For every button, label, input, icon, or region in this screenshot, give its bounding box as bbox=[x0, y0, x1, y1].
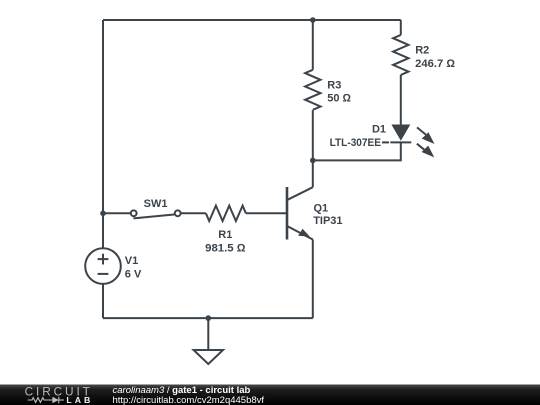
ground bbox=[194, 350, 223, 364]
wire switch SW1 right terminal to resistor R1 bbox=[181, 212, 206, 214]
node C junction dot (collector / LED cathode) bbox=[310, 158, 316, 164]
svg-text:LTL-307EE: LTL-307EE bbox=[330, 137, 381, 149]
wire node A to switch SW1 left terminal bbox=[103, 212, 131, 214]
svg-text:6 V: 6 V bbox=[125, 269, 142, 281]
wire transistor Q1 emitter down to bottom wire bbox=[312, 240, 314, 319]
resistor R2 bbox=[393, 35, 408, 75]
resistor R1 bbox=[206, 206, 246, 221]
wire V1 minus terminal down to bottom wire bbox=[102, 284, 104, 318]
wire resistor R1 to transistor Q1 base bbox=[246, 212, 286, 214]
svg-text:Q1: Q1 bbox=[314, 202, 329, 214]
svg-text:TIP31: TIP31 bbox=[313, 215, 342, 227]
svg-text:981.5 Ω: 981.5 Ω bbox=[205, 243, 246, 255]
node D junction dot (bottom wire / ground) bbox=[206, 315, 212, 321]
footer bar bbox=[0, 385, 540, 405]
svg-text:SW1: SW1 bbox=[144, 198, 168, 210]
switch SW1 bbox=[131, 210, 181, 218]
wire transistor Q1 collector up to node B bbox=[312, 110, 314, 187]
svg-text:50 Ω: 50 Ω bbox=[327, 93, 351, 105]
wire R2 top lead bbox=[400, 20, 402, 35]
LED D1 bbox=[382, 125, 435, 158]
svg-text:R1: R1 bbox=[218, 229, 232, 241]
node A junction dot (left wire / switch) bbox=[100, 211, 106, 217]
svg-text:LAB: LAB bbox=[66, 395, 93, 405]
svg-text:R3: R3 bbox=[327, 80, 341, 92]
wire top bbox=[103, 19, 401, 21]
wire LED D1 cathode down and left to node C bbox=[313, 142, 401, 160]
wire ground stub bbox=[207, 318, 209, 350]
voltage source V1 bbox=[85, 248, 121, 284]
node B junction dot (top wire / R3) bbox=[310, 17, 316, 23]
wire bottom bbox=[103, 317, 313, 319]
transistor Q1 bbox=[287, 187, 313, 240]
svg-text:246.7 Ω: 246.7 Ω bbox=[415, 58, 455, 70]
svg-text:R2: R2 bbox=[415, 45, 429, 57]
svg-text:V1: V1 bbox=[125, 255, 138, 267]
svg-text:D1: D1 bbox=[372, 124, 386, 136]
wire left vertical (top wire to V1 plus terminal) bbox=[102, 20, 104, 248]
wire top to resistor R3 bbox=[312, 20, 314, 70]
logo CIRCUIT LAB bbox=[25, 384, 94, 405]
wire resistor R2 to LED D1 anode bbox=[400, 75, 402, 125]
svg-text:http://circuitlab.com/cv2m2q44: http://circuitlab.com/cv2m2q445b8vf bbox=[113, 395, 265, 405]
resistor R3 bbox=[305, 70, 320, 110]
